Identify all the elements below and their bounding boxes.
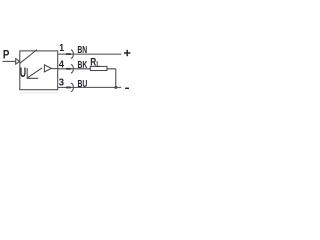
connector plug arc pin 3: [71, 83, 73, 92]
circuit schematic: pressure sensor with analog output, 3-wire connection: [0, 0, 135, 135]
minus supply terminal: [125, 87, 129, 89]
svg-text:U: U: [20, 65, 26, 80]
sensor diagonal (converter symbol): [20, 50, 37, 64]
svg-text:1: 1: [59, 43, 64, 54]
svg-text:L: L: [96, 59, 99, 69]
wire pin 3 BU line: [58, 86, 121, 88]
svg-text:BU: BU: [78, 78, 88, 90]
wire pin 4 BK line: [58, 68, 116, 70]
wire amplifier output to pin 4: [51, 68, 57, 70]
wire ghost shading under box bottom edge: [20, 92, 58, 94]
op-amp amplifier triangle: [44, 65, 51, 72]
arrowhead on P input: [16, 59, 20, 65]
connector pin dash 4: [67, 68, 71, 70]
ramp signal diagonal: [28, 68, 43, 78]
resistor RL body: [90, 66, 107, 70]
connector plug arc pin 1: [71, 50, 73, 59]
svg-text:4: 4: [59, 60, 65, 71]
connector pin dash 1: [67, 53, 71, 55]
svg-text:BN: BN: [77, 44, 87, 56]
wire pin 1 BN line: [58, 53, 122, 55]
junction node dot: [114, 86, 117, 89]
svg-text:3: 3: [59, 77, 65, 88]
wire P input line: [3, 60, 16, 62]
connector plug arc pin 4: [71, 64, 73, 73]
wire vertical drop from resistor to BU line: [115, 69, 117, 88]
ramp signal symbol axes: [27, 68, 38, 78]
svg-text:BK: BK: [78, 59, 88, 71]
svg-text:P: P: [3, 47, 9, 61]
sensor body box: [20, 51, 58, 90]
svg-text:R: R: [90, 56, 96, 68]
plus supply terminal: [124, 52, 130, 54]
connector pin dash 3: [67, 86, 71, 88]
